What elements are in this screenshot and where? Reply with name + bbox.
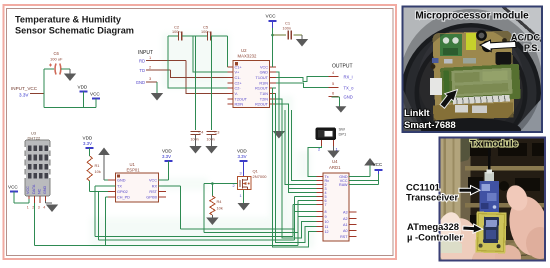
transistor Q1 2N7000 (233, 169, 268, 199)
svg-text:RX: RX (152, 185, 158, 189)
svg-text:ESP01: ESP01 (127, 168, 141, 173)
svg-text:GND: GND (344, 95, 353, 100)
svg-text:2: 2 (233, 184, 235, 188)
svg-text:Q1: Q1 (253, 169, 259, 174)
svg-text:Temperature & Humidity: Temperature & Humidity (15, 15, 122, 25)
ic U2 MAX3232 (228, 48, 277, 108)
supply VDD (left) (78, 85, 88, 108)
svg-text:3: 3 (38, 206, 40, 210)
svg-text:R1OUT: R1OUT (255, 87, 269, 91)
schematic inner frame (7, 9, 394, 256)
schematic outer frame (4, 5, 397, 259)
svg-text:RAW: RAW (339, 183, 348, 187)
svg-text:VCC: VCC (8, 185, 18, 190)
capacitor C2 (172, 25, 182, 41)
svg-text:12: 12 (325, 230, 329, 234)
wire R2OUT to ARD1 Rx (276, 104, 317, 189)
svg-text:GND: GND (136, 80, 145, 85)
svg-text:R1IN: R1IN (259, 82, 268, 86)
wire TD to U2 (171, 70, 228, 78)
pin 1 RD (139, 55, 186, 64)
wire bus riser b (292, 110, 317, 181)
svg-text:GPI00: GPI00 (146, 196, 157, 200)
svg-text:C2-: C2- (235, 87, 242, 91)
svg-text:3: 3 (240, 172, 242, 176)
module U1 ESP01 (108, 162, 166, 202)
svg-text:GND: GND (260, 71, 269, 75)
svg-text:3.3V: 3.3V (238, 154, 247, 159)
svg-text:VCC: VCC (26, 186, 30, 194)
svg-text:RX_i: RX_i (344, 74, 353, 79)
svg-text:10k: 10k (217, 206, 223, 211)
wire ESP01 GPIO2 net (99, 192, 317, 241)
pin 2 TD (139, 65, 170, 74)
svg-text:P.S.: P.S. (524, 43, 540, 53)
pin 5 TX_o (329, 81, 354, 90)
connector INPUT header (138, 50, 153, 56)
wire R1OUT to ARD1 pin12 (273, 88, 317, 247)
supply VCC DHT22 (8, 185, 29, 204)
switch SW DP1 (316, 127, 348, 141)
schematic title (15, 15, 134, 36)
label: LinkIt Smart-7688 (404, 108, 456, 131)
photo bottom border (440, 138, 546, 261)
wire R1 to GPIO2 (90, 181, 116, 192)
svg-text:C1-: C1- (235, 76, 242, 80)
ground up-arrow ESP01 GND (98, 148, 115, 181)
svg-text:GND: GND (43, 185, 47, 194)
wire bus riser a (285, 110, 316, 185)
svg-text:1: 1 (240, 194, 242, 198)
svg-text:100n: 100n (207, 138, 215, 142)
svg-text:C2+: C2+ (235, 82, 243, 86)
ground input header (151, 82, 163, 101)
svg-text:RD: RD (139, 59, 145, 64)
ground R4 (206, 215, 218, 225)
arrow to LinkIt (440, 90, 458, 109)
arrow to AC/DC P.S. (480, 40, 516, 52)
wire ESP01 TX net (95, 186, 317, 237)
wire switch pin2 to ARD1 Tx (308, 146, 321, 177)
svg-text:DP1: DP1 (339, 132, 348, 137)
wire T1IN to ARD1 pin11 (276, 94, 317, 243)
svg-text:VCC: VCC (266, 14, 277, 20)
wire R1IN to TX_o (276, 83, 329, 87)
supply VDD Q1 (237, 149, 248, 177)
svg-text:9: 9 (325, 215, 327, 219)
svg-text:VDD: VDD (162, 149, 172, 154)
svg-text:T1OUT: T1OUT (256, 76, 269, 80)
svg-text:100 uF: 100 uF (50, 57, 63, 62)
wire bus riser c (288, 189, 316, 193)
ground DHT22 (46, 201, 59, 212)
svg-text:A2: A2 (343, 217, 348, 221)
svg-text:GPI02: GPI02 (117, 190, 128, 194)
label: Tx module (470, 139, 518, 150)
svg-text:VCC: VCC (373, 162, 383, 167)
svg-text:3.3V: 3.3V (19, 93, 29, 98)
resistor R1 10k (87, 156, 101, 181)
svg-text:2N7000: 2N7000 (253, 174, 268, 179)
svg-text:V+: V+ (235, 71, 241, 75)
svg-text:VCC: VCC (149, 179, 157, 183)
wire VCC node to C1 (271, 34, 302, 67)
wire gate net (204, 182, 316, 233)
svg-text:R2IN: R2IN (235, 103, 244, 107)
svg-text:R1: R1 (95, 163, 100, 168)
svg-text:DATA: DATA (32, 184, 36, 194)
label: Microprocessor module (415, 11, 529, 22)
arrow to CC1101 (459, 186, 480, 195)
svg-text:C1+: C1+ (235, 66, 243, 70)
svg-text:ATmega328: ATmega328 (407, 221, 459, 232)
svg-text:3.3V: 3.3V (83, 141, 92, 146)
svg-text:OUTPUT: OUTPUT (332, 64, 353, 70)
wire top cap rail (168, 35, 228, 37)
svg-text:NC: NC (37, 188, 41, 194)
supply VCC ARD1 (349, 162, 383, 185)
svg-text:R4: R4 (217, 199, 223, 204)
svg-text:Sensor Schematic Diagram: Sensor Schematic Diagram (15, 26, 134, 36)
svg-text:T2IN: T2IN (260, 98, 268, 102)
svg-text:U2: U2 (241, 48, 247, 53)
svg-text:MAX3232: MAX3232 (238, 54, 257, 59)
svg-text:100n: 100n (283, 27, 291, 31)
svg-text:GND: GND (117, 179, 126, 183)
photo: Microprocessor module (401, 4, 543, 163)
ground switch pin1 (327, 146, 339, 158)
svg-text:C2: C2 (174, 25, 180, 30)
svg-text:TD: TD (139, 68, 145, 73)
svg-text:A1: A1 (343, 223, 348, 227)
supply VDD R1 (83, 136, 94, 157)
svg-text:10k: 10k (95, 169, 101, 174)
svg-text:R2OUT: R2OUT (255, 103, 269, 107)
svg-text:VCC: VCC (260, 66, 268, 70)
svg-text:VCC: VCC (90, 92, 100, 97)
resistor R4 10k (210, 184, 223, 216)
ic U4 ARD1 (317, 159, 357, 241)
capacitor C5 (201, 25, 211, 41)
svg-text:T2OUT: T2OUT (235, 98, 248, 102)
svg-text:VDD: VDD (237, 149, 247, 154)
ground after C6 (64, 69, 76, 81)
supply VCC U2 (266, 14, 277, 36)
wire RD to U2 (186, 61, 228, 94)
svg-text:Transceiver: Transceiver (406, 192, 458, 203)
svg-text:4: 4 (43, 206, 45, 210)
ground OUTPUT (332, 97, 347, 113)
svg-text:100n: 100n (201, 30, 209, 34)
U3 pin stubs and numbers (27, 196, 46, 210)
node INPUT_VCC (11, 86, 38, 98)
wire T1OUT to RX_i (276, 76, 329, 81)
wire U2 GND to ground (276, 72, 279, 131)
svg-text:Smart-7688: Smart-7688 (404, 120, 456, 131)
switch pins (318, 140, 339, 152)
photo: Tx module (433, 138, 550, 268)
pin 4 RX_i (329, 70, 353, 79)
capacitor C1 (283, 21, 292, 40)
wire C2 branch down (168, 36, 228, 88)
svg-text:VDD: VDD (83, 136, 93, 141)
svg-text:TX: TX (117, 185, 122, 189)
wire T2IN to ARD1 pin10 (276, 99, 317, 238)
capacitor C3 (207, 130, 220, 142)
svg-text:INPUT_VCC: INPUT_VCC (11, 86, 38, 91)
wire input_vcc loop (30, 69, 96, 108)
wire mid branches (193, 36, 228, 130)
ground Q1 source (238, 190, 250, 211)
label: CC1101 Transceiver (406, 182, 458, 203)
svg-text:A3: A3 (343, 211, 348, 215)
svg-text:1: 1 (27, 206, 29, 210)
svg-text:C4: C4 (199, 130, 205, 135)
wire DATA net (35, 197, 116, 245)
svg-text:CH_PD: CH_PD (117, 196, 130, 200)
svg-text:Tx module: Tx module (470, 139, 518, 150)
svg-text:100n: 100n (191, 138, 199, 142)
label: ATmega328 u-Controller (407, 221, 463, 243)
svg-text:A0: A0 (343, 229, 348, 233)
svg-text:C5: C5 (203, 25, 209, 30)
svg-text:VDD: VDD (78, 85, 88, 90)
label: AC/DC P.S. (511, 33, 540, 54)
ground U2 GND net (273, 131, 285, 139)
ground C1 (296, 35, 308, 47)
svg-text:C6: C6 (54, 51, 60, 56)
ground up-arrow ARD1 GND (349, 158, 376, 177)
pin 3 GND (136, 76, 157, 85)
svg-text:11: 11 (325, 225, 329, 229)
wire DATA to row9 (106, 217, 317, 246)
svg-text:Microprocessor module: Microprocessor module (415, 11, 529, 22)
svg-text:C1: C1 (285, 21, 291, 26)
svg-text:RST: RST (340, 235, 348, 239)
svg-text:3.3V: 3.3V (162, 154, 171, 159)
svg-text:U4: U4 (332, 159, 338, 164)
photo top border (403, 7, 543, 133)
svg-text:7: 7 (325, 203, 327, 207)
ground C3 (205, 135, 217, 154)
wire ESP01 RX net (159, 186, 317, 229)
svg-text:T1IN: T1IN (260, 92, 268, 96)
svg-text:U1: U1 (130, 162, 136, 167)
sensor U3 DHT22 (24, 131, 51, 197)
capacitor C6 (49, 51, 63, 75)
arrow to ATmega328 (463, 224, 483, 233)
svg-text:LinkIt: LinkIt (404, 108, 430, 119)
supply VDD ESP01 (159, 149, 173, 181)
pin 6 GND (329, 91, 353, 100)
svg-text:µ -Controller: µ -Controller (407, 232, 463, 243)
svg-text:ARD1: ARD1 (329, 165, 341, 170)
svg-text:RST: RST (149, 190, 157, 194)
svg-text:TX_o: TX_o (344, 85, 355, 90)
svg-text:10: 10 (325, 220, 329, 224)
svg-text:8: 8 (325, 210, 327, 214)
svg-text:C3: C3 (215, 130, 220, 135)
ground C4 (189, 135, 201, 154)
capacitor C4 (191, 130, 205, 142)
supply VCC (left) (90, 92, 100, 108)
svg-text:100n: 100n (172, 30, 180, 34)
connector OUTPUT header (332, 64, 353, 70)
